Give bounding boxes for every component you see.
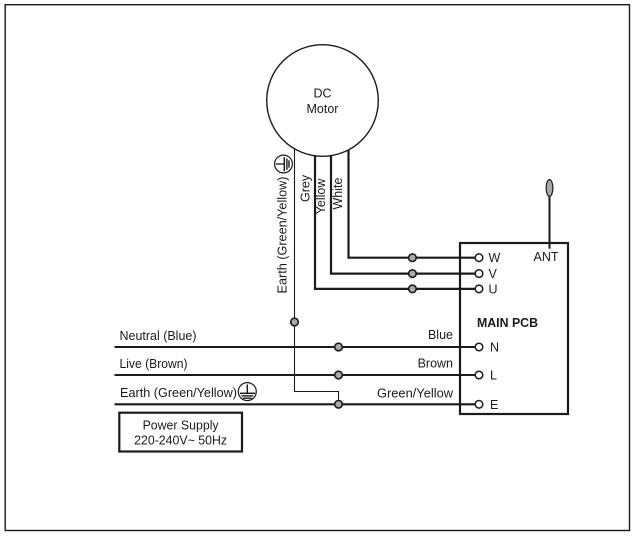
svg-text:Power Supply: Power Supply: [143, 419, 220, 433]
svg-text:Grey: Grey: [298, 174, 312, 202]
junction dot on earth line: [335, 401, 343, 409]
svg-text:N: N: [490, 341, 499, 355]
svg-text:DC: DC: [313, 87, 331, 101]
terminal E: [475, 398, 498, 412]
junction dot on live line: [335, 371, 343, 379]
terminal N: [475, 341, 499, 355]
MAIN PCB box U1: [460, 243, 568, 414]
wire: Earth line: [115, 403, 477, 405]
svg-text:Brown: Brown: [418, 357, 453, 371]
svg-text:220-240V~ 50Hz: 220-240V~ 50Hz: [134, 434, 227, 448]
wire: White (motor to terminal W): [349, 140, 477, 258]
terminal W: [475, 251, 500, 265]
svg-text:Yellow: Yellow: [314, 178, 328, 215]
svg-text:Blue: Blue: [428, 328, 453, 342]
terminal U: [475, 282, 497, 296]
motor M1: DC Motor: [267, 45, 379, 157]
earth symbol (mains earth label): [238, 383, 256, 401]
wire: Yellow (motor to terminal V): [331, 140, 476, 274]
power supply box PS1: [119, 413, 242, 452]
junction dot on motor earth wire: [291, 318, 299, 326]
svg-text:Earth (Green/Yellow): Earth (Green/Yellow): [275, 177, 289, 294]
svg-text:ANT: ANT: [534, 250, 559, 264]
svg-text:W: W: [489, 251, 501, 265]
wire: Neutral line: [115, 346, 477, 348]
wire: Live line: [115, 374, 477, 376]
junction dot on white wire (row W): [409, 254, 417, 262]
terminal V: [475, 267, 497, 281]
junction dot on yellow wire (row V): [409, 270, 417, 278]
svg-text:L: L: [490, 369, 497, 383]
svg-text:Green/Yellow: Green/Yellow: [377, 386, 454, 400]
svg-text:V: V: [489, 267, 498, 281]
antenna ANT: [534, 180, 559, 264]
svg-text:Neutral (Blue): Neutral (Blue): [120, 329, 197, 343]
svg-text:E: E: [490, 398, 498, 412]
svg-text:MAIN PCB: MAIN PCB: [477, 316, 538, 330]
junction dot on grey wire (row U): [409, 285, 417, 293]
svg-text:Motor: Motor: [307, 102, 339, 116]
svg-text:White: White: [331, 178, 345, 210]
junction dot on neutral line: [335, 343, 343, 351]
svg-text:Earth (Green/Yellow): Earth (Green/Yellow): [120, 386, 237, 400]
wire: Grey (motor to terminal U): [315, 140, 476, 289]
wire: Earth (Green/Yellow) from motor down to mains earth line: [295, 140, 339, 404]
earth symbol (motor earth lead, rotated): [275, 155, 293, 173]
terminal L: [475, 369, 497, 383]
svg-text:Live (Brown): Live (Brown): [120, 357, 188, 371]
svg-text:U: U: [489, 282, 498, 296]
